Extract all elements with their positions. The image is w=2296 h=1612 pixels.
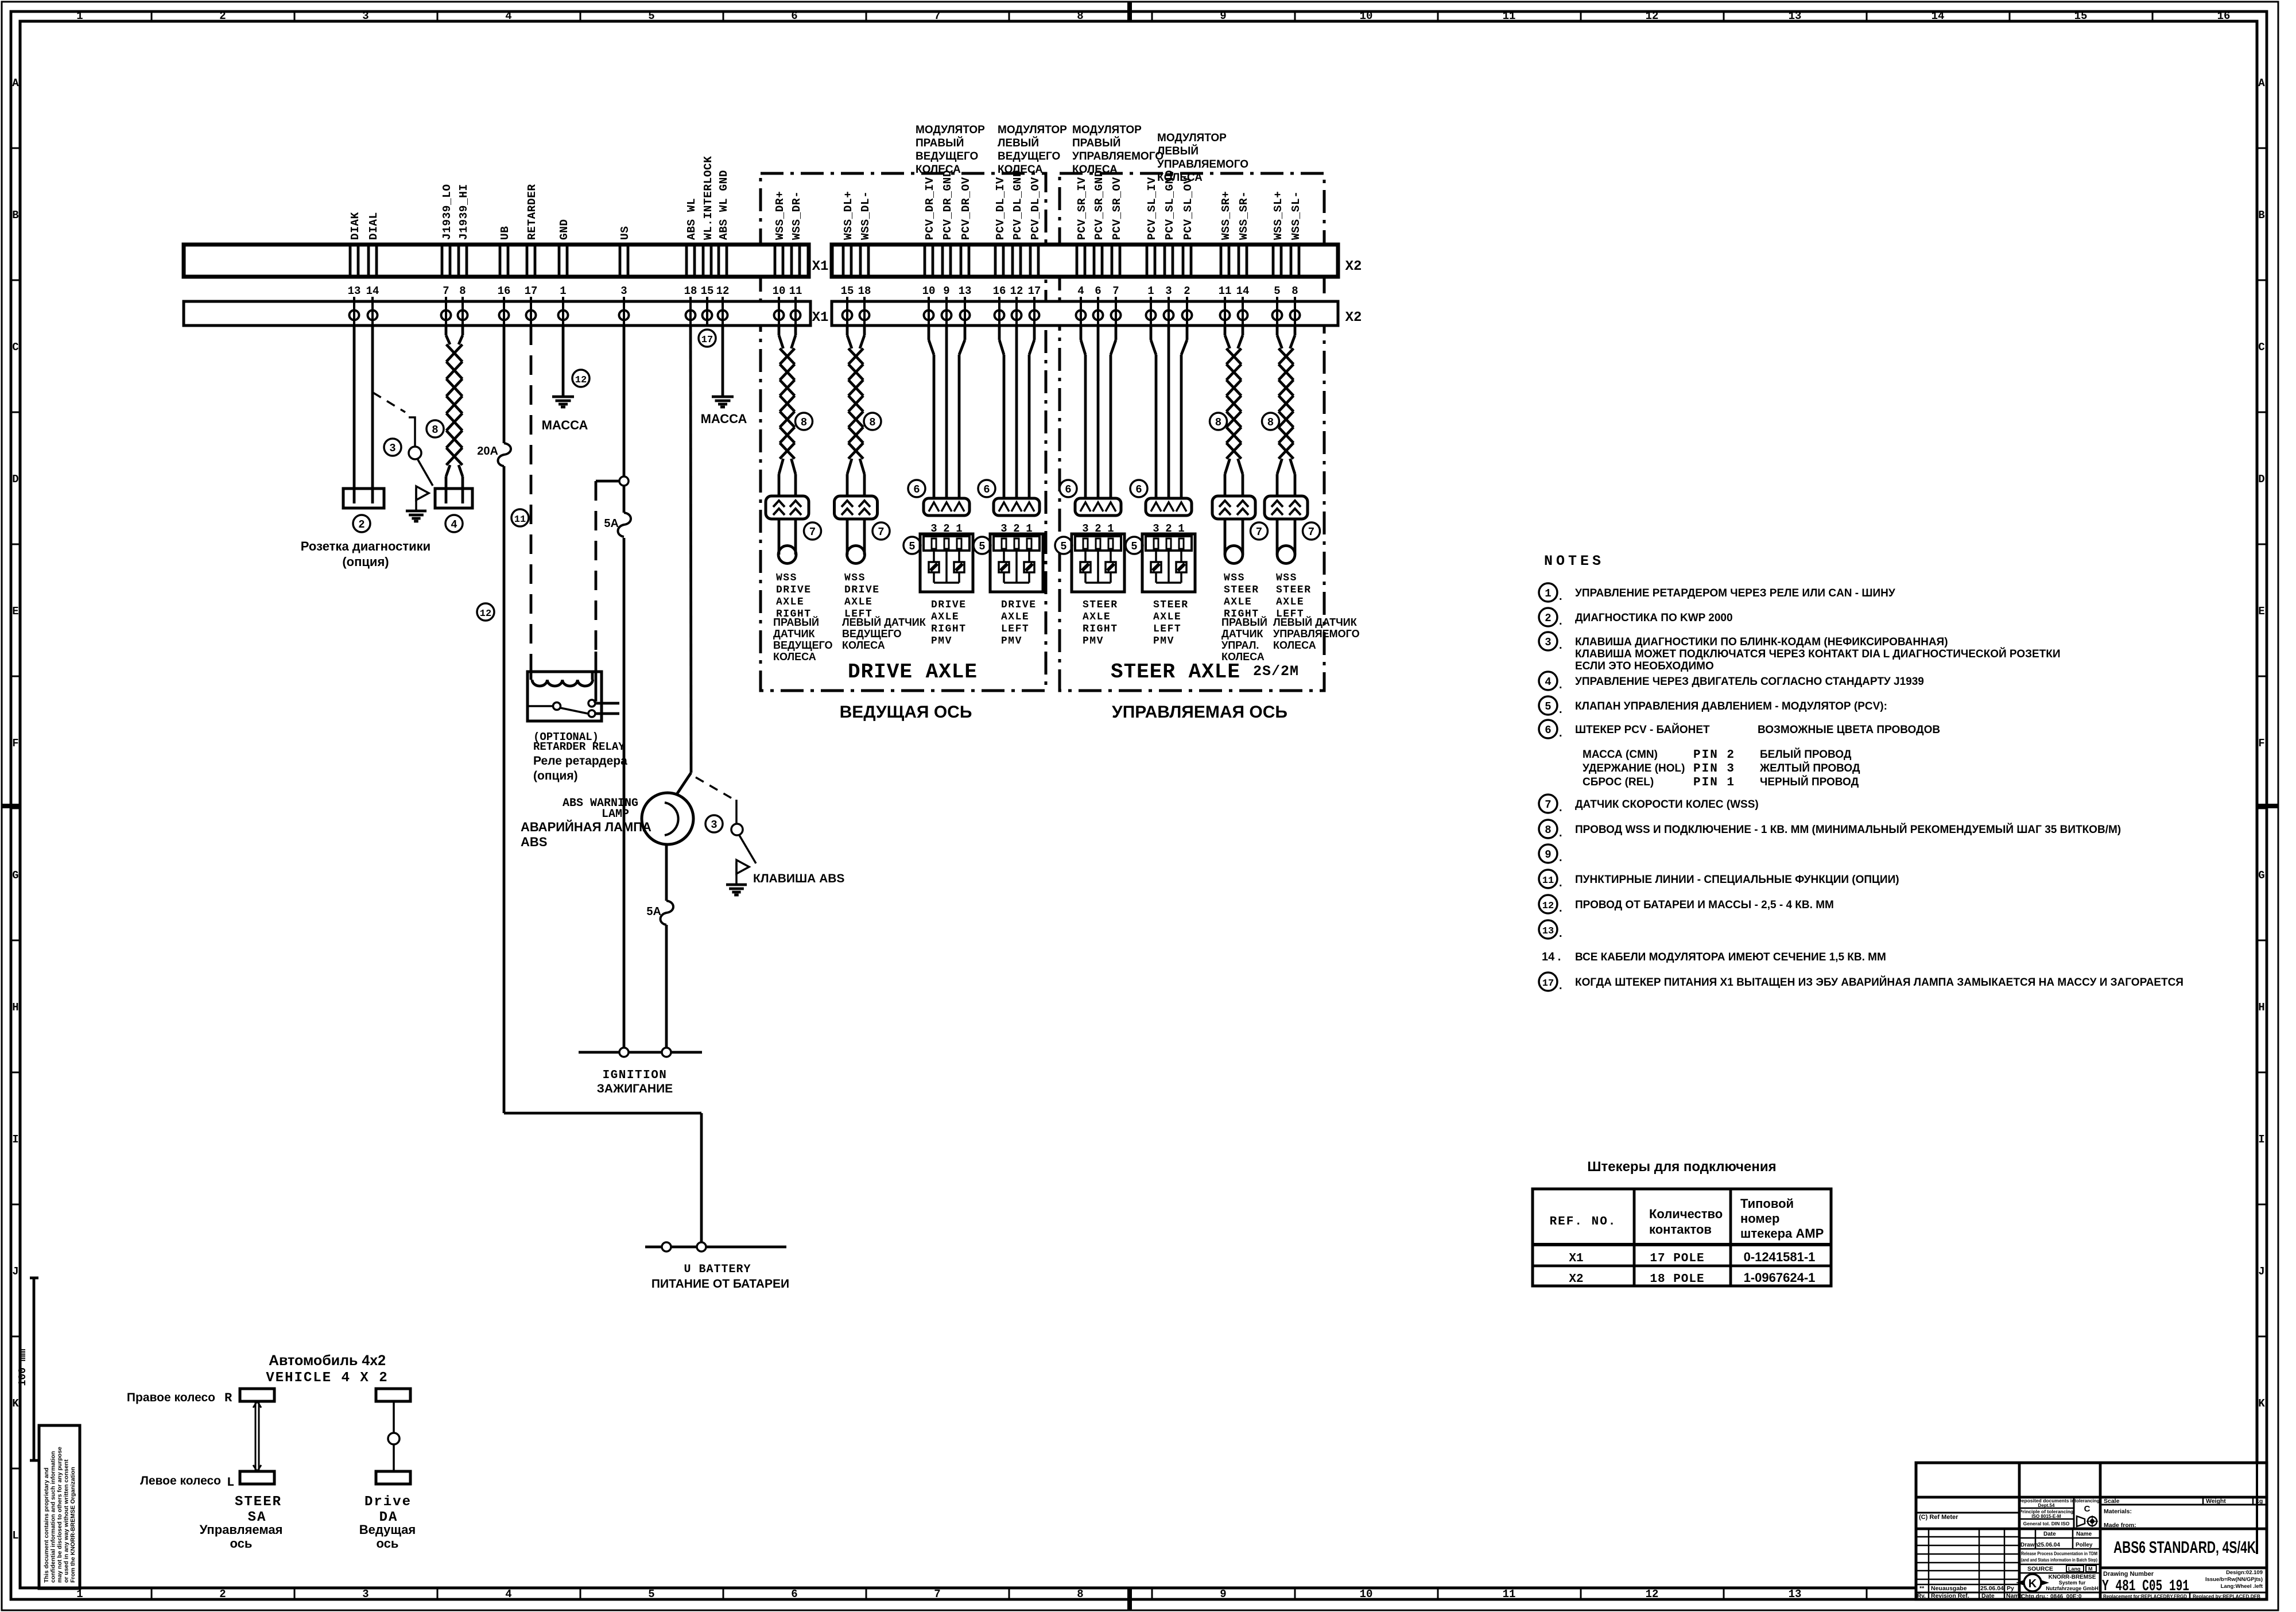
label WSS-DR english xyxy=(776,572,812,620)
note circle 6 (PMV-DR) xyxy=(908,480,925,497)
svg-text:3: 3 xyxy=(362,1588,369,1601)
ignition node (US) xyxy=(619,1048,629,1057)
switch contact circle xyxy=(409,447,421,459)
svg-text:ВЕДУЩЕГО: ВЕДУЩЕГО xyxy=(998,150,1060,162)
svg-text:L: L xyxy=(12,1529,18,1542)
sensor head WSS-SR xyxy=(1225,546,1243,564)
svg-text:PMV: PMV xyxy=(931,635,952,647)
svg-text:AXLE: AXLE xyxy=(776,596,804,608)
svg-text:25.06.04: 25.06.04 xyxy=(1980,1585,2004,1592)
svg-text:Y 481 C05 191: Y 481 C05 191 xyxy=(2102,1578,2189,1595)
svg-text:I: I xyxy=(12,1133,18,1146)
svg-text:12: 12 xyxy=(1542,901,1554,912)
svg-text:8: 8 xyxy=(1267,416,1274,429)
PMV valve box PMV-SL xyxy=(1142,534,1195,592)
svg-text:100 mm: 100 mm xyxy=(17,1348,29,1386)
ABS button wire xyxy=(735,800,738,823)
svg-text:УПРАВЛЕНИЕ РЕТАРДЕРОМ ЧЕРЕЗ РЕ: УПРАВЛЕНИЕ РЕТАРДЕРОМ ЧЕРЕЗ РЕЛЕ ИЛИ CAN… xyxy=(1575,587,1895,599)
label WSS-SL english xyxy=(1276,572,1312,620)
svg-text:Design:02.109: Design:02.109 xyxy=(2226,1570,2263,1576)
svg-text:Lang: Lang xyxy=(2068,1566,2081,1572)
note circle 7 (WSS-DL) xyxy=(872,522,890,540)
label PMV-SR xyxy=(1083,599,1118,647)
svg-text:WSS_DR-: WSS_DR- xyxy=(790,191,803,240)
svg-text:4: 4 xyxy=(505,1588,511,1601)
relay armature xyxy=(560,708,588,714)
modulator header text xyxy=(1157,132,1248,184)
svg-text:6: 6 xyxy=(1545,724,1551,737)
svg-text:or used in any way without wri: or used in any way without written conse… xyxy=(63,1459,70,1583)
svg-text:7: 7 xyxy=(878,526,884,538)
label WSS-SR russian xyxy=(1221,616,1267,662)
svg-text:LAMP: LAMP xyxy=(602,808,629,821)
svg-text:15: 15 xyxy=(2074,10,2088,22)
battery node xyxy=(662,1242,671,1251)
top ruler ticks and numbers 1-16 xyxy=(76,10,2230,22)
svg-text:.: . xyxy=(1559,615,1562,627)
svg-text:КОЛЕСА: КОЛЕСА xyxy=(916,164,961,176)
svg-text:25.06.04: 25.06.04 xyxy=(2038,1542,2060,1548)
svg-text:5A: 5A xyxy=(646,905,661,918)
note circle 8 (WSS-DR) xyxy=(796,413,813,430)
svg-text:.: . xyxy=(1559,801,1562,814)
wire ABS WL GND (pin12) to chassis ground xyxy=(722,325,724,397)
svg-text:11: 11 xyxy=(1503,1588,1516,1601)
twisted pair WSS-SL xyxy=(1279,348,1294,459)
wire UB (pin16) down xyxy=(503,325,506,443)
svg-text:Правое колесо: Правое колесо xyxy=(127,1391,215,1404)
svg-text:КОЛЕСА: КОЛЕСА xyxy=(998,164,1043,176)
svg-text:3: 3 xyxy=(711,819,717,831)
svg-text:КЛАВИША ДИАГНОСТИКИ ПО БЛИНК-К: КЛАВИША ДИАГНОСТИКИ ПО БЛИНК-КОДАМ (НЕФИ… xyxy=(1575,636,1948,648)
label WSS-SL russian xyxy=(1273,616,1360,651)
svg-text:10: 10 xyxy=(922,285,936,297)
drive axle: right wheel xyxy=(376,1389,410,1401)
svg-text:Date: Date xyxy=(1981,1592,1995,1599)
svg-text:STEER: STEER xyxy=(1083,599,1118,611)
svg-text:ось: ось xyxy=(377,1536,399,1551)
svg-text:Ведущая: Ведущая xyxy=(359,1522,416,1537)
X1 pin 15 (WL.INTERLOCK) xyxy=(701,245,714,325)
svg-text:PCV_DR_GND: PCV_DR_GND xyxy=(941,170,954,240)
svg-text:H: H xyxy=(12,1001,18,1014)
svg-text:8: 8 xyxy=(432,424,438,436)
modulator header text xyxy=(998,124,1067,176)
WSS sensor pair wires WSS-DR xyxy=(778,325,781,335)
label WSS-DL russian xyxy=(842,616,926,651)
svg-text:ПРАВЫЙ: ПРАВЫЙ xyxy=(916,137,964,149)
svg-text:PCV_DL_IV: PCV_DL_IV xyxy=(994,177,1007,240)
svg-text:X1: X1 xyxy=(812,310,829,325)
svg-text:C: C xyxy=(12,341,18,354)
svg-text:PCV_SR_IV: PCV_SR_IV xyxy=(1076,177,1088,240)
sensor head WSS-DR xyxy=(778,546,796,564)
svg-text:12: 12 xyxy=(575,375,587,386)
svg-text:16: 16 xyxy=(993,285,1006,297)
note circle 6 (PMV-DL) xyxy=(978,480,995,497)
svg-text:J1939_HI: J1939_HI xyxy=(457,184,470,240)
svg-text:ABS6 STANDARD, 4S/4K: ABS6 STANDARD, 4S/4K xyxy=(2113,1539,2256,1557)
svg-text:15: 15 xyxy=(701,285,714,297)
PCV bayonet connector PMV-DR xyxy=(924,498,969,516)
svg-text:X1: X1 xyxy=(812,259,829,274)
svg-text:STEER AXLE: STEER AXLE xyxy=(1111,660,1240,684)
X1 pin 17 (RETARDER) xyxy=(525,245,538,325)
svg-text:D: D xyxy=(12,473,18,486)
svg-text:WSS_SL+: WSS_SL+ xyxy=(1272,191,1285,240)
svg-text:ABS: ABS xyxy=(521,835,547,849)
drive axle: left wheel xyxy=(376,1471,410,1484)
svg-text:7: 7 xyxy=(1545,799,1551,811)
svg-text:ПРАВЫЙ: ПРАВЫЙ xyxy=(773,616,819,628)
svg-text:УПРАВЛЯЕМАЯ ОСЬ: УПРАВЛЯЕМАЯ ОСЬ xyxy=(1112,703,1287,722)
svg-text:.: . xyxy=(1559,979,1562,992)
svg-text:Made from:: Made from: xyxy=(2104,1522,2136,1529)
svg-text:Replaced by:REPLACED.DFB: Replaced by:REPLACED.DFB xyxy=(2193,1594,2260,1600)
twisted pair WSS-DL xyxy=(848,348,863,459)
svg-text:PIN 3: PIN 3 xyxy=(1693,762,1735,776)
svg-text:ДАТЧИК: ДАТЧИК xyxy=(1221,628,1264,640)
svg-text:11: 11 xyxy=(1542,875,1554,886)
svg-text:Реле ретардера: Реле ретардера xyxy=(533,754,627,768)
modulator header text xyxy=(916,124,985,176)
svg-text:13: 13 xyxy=(1789,10,1802,22)
svg-text:AXLE: AXLE xyxy=(1276,596,1304,608)
svg-text:13: 13 xyxy=(1789,1588,1802,1601)
svg-text:K: K xyxy=(2029,1578,2037,1590)
svg-text:17: 17 xyxy=(1028,285,1041,297)
svg-text:17 POLE: 17 POLE xyxy=(1650,1252,1704,1265)
svg-text:Py: Py xyxy=(2007,1585,2014,1592)
branch into relay terminal xyxy=(594,700,596,703)
X1 pin 3 (US) xyxy=(619,245,629,325)
svg-text:Nutzfahrzeuge GmbH: Nutzfahrzeuge GmbH xyxy=(2046,1586,2099,1591)
svg-text:4: 4 xyxy=(1077,285,1084,297)
svg-text:AXLE: AXLE xyxy=(931,611,959,623)
svg-text:8: 8 xyxy=(869,416,875,429)
wire US (pin3) down xyxy=(623,325,626,1048)
note circle 12 (battery wire) xyxy=(477,603,494,621)
svg-text:Rv.: Rv. xyxy=(1917,1593,1926,1599)
ABS warning lamp xyxy=(642,793,693,844)
svg-text:PCV_DL_OV: PCV_DL_OV xyxy=(1029,177,1042,240)
inner frame stub inside title block xyxy=(2256,1463,2258,1554)
fuse 5A (US wire) xyxy=(619,513,629,538)
svg-text:ABS WL: ABS WL xyxy=(685,198,698,240)
note circle 5 (PMV-SL) xyxy=(1126,537,1143,554)
title block main verticals xyxy=(2018,1463,2021,1599)
svg-text:16: 16 xyxy=(498,285,511,297)
note 6 colours table xyxy=(1583,724,1940,789)
X2 pin 6 (PCV_SR_GND) xyxy=(1093,245,1103,325)
label PMV-DL xyxy=(1001,599,1037,647)
note circle 17 xyxy=(699,330,716,347)
svg-text:DRIVE AXLE: DRIVE AXLE xyxy=(848,660,978,684)
svg-text:2: 2 xyxy=(1545,612,1551,625)
svg-text:Release Process Documentation: Release Process Documentation in TDM xyxy=(2021,1551,2097,1556)
svg-text:УПРАВЛЕНИЕ ЧЕРЕЗ ДВИГАТЕЛЬ СОГ: УПРАВЛЕНИЕ ЧЕРЕЗ ДВИГАТЕЛЬ СОГЛАСНО СТАН… xyxy=(1575,676,1924,688)
svg-text:STEER: STEER xyxy=(1224,584,1259,596)
svg-text:КОЛЕСА: КОЛЕСА xyxy=(1273,640,1316,651)
note circle 12 (ground wire) xyxy=(572,370,589,387)
svg-text:КОЛЕСА: КОЛЕСА xyxy=(842,640,885,651)
wire US node to retarder-relay branch xyxy=(596,480,619,483)
X1 pin 14 (DIAL) xyxy=(366,245,379,325)
svg-text:Revision Ref.: Revision Ref. xyxy=(1931,1592,1969,1599)
note circle 6 (PMV-SR) xyxy=(1060,480,1077,497)
svg-text:System fur: System fur xyxy=(2059,1580,2086,1586)
WSS connector WSS-DR xyxy=(766,496,809,519)
svg-text:RIGHT: RIGHT xyxy=(1083,623,1118,635)
ABS button lever xyxy=(739,835,756,863)
svg-text:3: 3 xyxy=(1545,636,1551,649)
svg-text:12: 12 xyxy=(716,285,730,297)
X1 pin 18 (ABS WL) xyxy=(684,245,697,325)
svg-text:STEER: STEER xyxy=(235,1494,282,1510)
svg-text:(опция): (опция) xyxy=(342,555,389,569)
svg-text:D: D xyxy=(2258,473,2264,486)
svg-text:5: 5 xyxy=(979,540,985,553)
svg-text:Автомобиль 4x2: Автомобиль 4x2 xyxy=(269,1353,386,1369)
retarder relay box xyxy=(528,672,602,721)
note circle 5 (PMV-DR) xyxy=(903,537,921,554)
svg-text:6: 6 xyxy=(983,483,990,496)
X1 pin 8 (J1939_HI) xyxy=(458,245,468,325)
svg-text:AXLE: AXLE xyxy=(844,596,872,608)
svg-text:2: 2 xyxy=(219,1588,226,1601)
svg-text:5: 5 xyxy=(1060,540,1066,553)
X1 pin 1 (GND) xyxy=(559,245,568,325)
relay common contact xyxy=(529,705,553,707)
svg-text:номер: номер xyxy=(1740,1211,1779,1226)
svg-text:B: B xyxy=(2258,209,2264,222)
differential circle xyxy=(388,1433,400,1444)
X2 pin 3 (PCV_SL_GND) xyxy=(1164,245,1174,325)
svg-text:7: 7 xyxy=(934,10,940,22)
X2 pin 18 (WSS_DL-) xyxy=(858,245,871,325)
X1 pin 12 (ABS WL GND) xyxy=(716,245,730,325)
svg-text:ЖЕЛТЫЙ ПРОВОД: ЖЕЛТЫЙ ПРОВОД xyxy=(1759,762,1860,774)
ABS button flag + ground xyxy=(726,860,749,895)
svg-text:DIAL: DIAL xyxy=(367,212,380,240)
svg-text:WSS_DL+: WSS_DL+ xyxy=(842,191,855,240)
svg-text:STEER: STEER xyxy=(1276,584,1312,596)
WSS sensor pair wires WSS-SR xyxy=(1224,325,1227,335)
twisted pair WSS-DR xyxy=(780,348,795,459)
svg-text:12: 12 xyxy=(1646,1588,1659,1601)
svg-text:КОЛЕСА: КОЛЕСА xyxy=(1072,164,1118,176)
X1 pin 7 (J1939_LO) xyxy=(441,245,451,325)
note circle 8 (WSS-SR) xyxy=(1210,413,1227,430)
svg-text:From the KNORR-BREMSE Organiza: From the KNORR-BREMSE Organization xyxy=(69,1467,76,1583)
svg-text:11: 11 xyxy=(1219,285,1232,297)
note circle 3 (ABS button) xyxy=(705,815,723,832)
svg-text:PCV_DR_IV: PCV_DR_IV xyxy=(924,177,936,240)
label WSS-DL english xyxy=(844,572,880,620)
PCV wires PMV-DL xyxy=(998,325,1001,340)
proprietary notice box xyxy=(39,1425,80,1588)
svg-text:ВЕДУЩАЯ ОСЬ: ВЕДУЩАЯ ОСЬ xyxy=(840,703,972,722)
svg-text:2: 2 xyxy=(358,518,364,531)
svg-text:9: 9 xyxy=(1220,10,1226,22)
note 17 xyxy=(1539,972,2183,992)
svg-text:3: 3 xyxy=(620,285,627,297)
svg-text:K: K xyxy=(12,1397,19,1410)
svg-text:6: 6 xyxy=(1065,483,1071,496)
ignition node (lamp) xyxy=(662,1048,671,1057)
svg-text:tolerancing: tolerancing xyxy=(2074,1498,2099,1503)
svg-text:АВАРИЙНАЯ ЛАМПА: АВАРИЙНАЯ ЛАМПА xyxy=(521,820,651,834)
svg-text:КОЛЕСА: КОЛЕСА xyxy=(773,651,816,662)
svg-text:13: 13 xyxy=(348,285,361,297)
svg-text:PCV_SL_IV: PCV_SL_IV xyxy=(1146,177,1158,240)
svg-text:5: 5 xyxy=(909,540,915,553)
svg-text:R: R xyxy=(224,1391,232,1405)
wire ABS WL (pin18) to warning lamp xyxy=(691,325,691,773)
note circle 8 (WSS-SL) xyxy=(1262,413,1279,430)
svg-text:Drawn: Drawn xyxy=(2020,1542,2038,1548)
PCV bayonet connector PMV-SL xyxy=(1146,498,1192,516)
svg-text:18: 18 xyxy=(684,285,697,297)
svg-text:PCV_SL_OV: PCV_SL_OV xyxy=(1182,177,1194,240)
svg-text:PIN 2: PIN 2 xyxy=(1693,749,1735,762)
svg-text:STEER: STEER xyxy=(1153,599,1189,611)
svg-text:PMV: PMV xyxy=(1153,635,1174,647)
svg-text:kg: kg xyxy=(2256,1498,2263,1505)
svg-text:E: E xyxy=(12,605,18,618)
svg-text:17: 17 xyxy=(1542,978,1554,989)
svg-text:ВЕДУЩЕГО: ВЕДУЩЕГО xyxy=(842,628,902,640)
svg-text:UB: UB xyxy=(499,226,511,240)
PCV wires PMV-DR xyxy=(928,325,930,340)
sensor wires WSS-DL xyxy=(846,519,849,555)
J1939 connector socket xyxy=(435,489,472,508)
svg-text:A: A xyxy=(2258,77,2265,90)
svg-text:U BATTERY: U BATTERY xyxy=(684,1263,751,1276)
X2 pin 5 (WSS_SL+) xyxy=(1273,245,1282,325)
svg-text:ЕСЛИ ЭТО НЕОБХОДИМО: ЕСЛИ ЭТО НЕОБХОДИМО xyxy=(1575,660,1714,672)
svg-text:3: 3 xyxy=(362,10,369,22)
svg-text:ЛЕВЫЙ: ЛЕВЫЙ xyxy=(998,137,1039,149)
diagnostic blink-code switch (note 3) dashed link xyxy=(373,393,405,412)
svg-text:10: 10 xyxy=(1360,10,1373,22)
svg-text:6: 6 xyxy=(1095,285,1101,297)
svg-text:11: 11 xyxy=(1503,10,1516,22)
svg-text:ПУНКТИРНЫЕ ЛИНИИ - СПЕЦИАЛЬНЫЕ: ПУНКТИРНЫЕ ЛИНИИ - СПЕЦИАЛЬНЫЕ ФУНКЦИИ (… xyxy=(1575,874,1899,886)
svg-text:G: G xyxy=(12,869,18,882)
steer axle: left wheel xyxy=(240,1471,274,1484)
svg-text:9: 9 xyxy=(1545,848,1551,861)
svg-text:10: 10 xyxy=(1360,1588,1373,1601)
X1 pin 13 (DIAK) xyxy=(348,245,361,325)
svg-text:B: B xyxy=(12,209,18,222)
note circle 4 xyxy=(445,515,463,532)
note 7 xyxy=(1539,795,1759,814)
svg-text:ДАТЧИК: ДАТЧИК xyxy=(773,628,816,640)
svg-text:1-0967624-1: 1-0967624-1 xyxy=(1744,1270,1816,1285)
svg-text:8: 8 xyxy=(1291,285,1298,297)
ECU connector X2 bottom (pin) bar xyxy=(832,301,1338,325)
dashed branch to relay contact xyxy=(595,481,598,652)
svg-text:AXLE: AXLE xyxy=(1224,596,1252,608)
svg-text:RETARDER: RETARDER xyxy=(526,184,538,240)
note circle 7 (WSS-SR) xyxy=(1251,522,1268,540)
svg-text:17: 17 xyxy=(525,285,538,297)
svg-text:ISO 8015-E-M: ISO 8015-E-M xyxy=(2031,1514,2061,1519)
svg-text:6: 6 xyxy=(791,10,797,22)
drive axle shaft xyxy=(393,1401,395,1433)
svg-text:8: 8 xyxy=(1077,10,1083,22)
svg-text:11: 11 xyxy=(789,285,802,297)
svg-text:Управляемая: Управляемая xyxy=(200,1522,283,1537)
svg-text:ПРОВОД WSS И ПОДКЛЮЧЕНИЕ - 1 К: ПРОВОД WSS И ПОДКЛЮЧЕНИЕ - 1 КВ. ММ (МИН… xyxy=(1575,823,2121,836)
X1 pin 11 (WSS_DR-) xyxy=(789,245,802,325)
svg-text:F: F xyxy=(2258,737,2264,750)
ABS button contact circle xyxy=(731,824,743,835)
svg-text:14: 14 xyxy=(1932,10,1945,22)
svg-text:ПРАВЫЙ: ПРАВЫЙ xyxy=(1072,137,1120,149)
svg-text:DIAK: DIAK xyxy=(349,212,362,240)
svg-text:8: 8 xyxy=(1077,1588,1083,1601)
svg-text:КОЛЕСА: КОЛЕСА xyxy=(1157,172,1203,184)
note 2 xyxy=(1539,608,1733,627)
PCV wires PMV-SL xyxy=(1150,325,1153,340)
X2 pin 16 (PCV_DL_IV) xyxy=(993,245,1006,325)
svg-text:КОГДА ШТЕКЕР ПИТАНИЯ X1 ВЫТАЩЕ: КОГДА ШТЕКЕР ПИТАНИЯ X1 ВЫТАЩЕН ИЗ ЭБУ А… xyxy=(1575,976,2183,989)
PCV bayonet connector PMV-DL xyxy=(994,498,1040,516)
svg-text:.: . xyxy=(1559,639,1562,652)
twisted pair J1939 (pins 7/8) xyxy=(445,325,448,335)
svg-text:WSS: WSS xyxy=(1276,572,1297,584)
svg-text:ВЕДУЩЕГО: ВЕДУЩЕГО xyxy=(916,150,978,162)
svg-text:Dept.54: Dept.54 xyxy=(2038,1503,2055,1508)
label WSS-DR russian xyxy=(773,616,833,662)
svg-text:5: 5 xyxy=(648,10,654,22)
sensor wires WSS-DR xyxy=(778,519,781,555)
svg-text:.: . xyxy=(1559,927,1562,940)
svg-text:11: 11 xyxy=(514,514,526,525)
X2 pin 7 (PCV_SR_OV) xyxy=(1111,245,1121,325)
svg-text:ПИТАНИЕ ОТ БАТАРЕИ: ПИТАНИЕ ОТ БАТАРЕИ xyxy=(651,1277,789,1291)
svg-text:8: 8 xyxy=(1545,824,1551,836)
svg-text:WSS: WSS xyxy=(1224,572,1245,584)
note 6 xyxy=(1539,720,1710,739)
svg-text:КЛАПАН УПРАВЛЕНИЯ ДАВЛЕНИЕМ -: КЛАПАН УПРАВЛЕНИЯ ДАВЛЕНИЕМ - МОДУЛЯТОР … xyxy=(1575,700,1887,712)
note circle 7 (WSS-DR) xyxy=(804,522,821,540)
svg-text:I: I xyxy=(2258,1133,2264,1146)
ground symbol (ABS WL GND) xyxy=(712,397,734,407)
relay terminals xyxy=(588,700,595,707)
svg-text:Issue/b=Rw(NN/GPjts): Issue/b=Rw(NN/GPjts) xyxy=(2205,1576,2263,1583)
svg-text:9: 9 xyxy=(1220,1588,1226,1601)
PCV bayonet connector PMV-SR xyxy=(1075,498,1121,516)
svg-text:L: L xyxy=(227,1475,234,1490)
PMV valve box PMV-DL xyxy=(990,534,1043,592)
svg-text:УПРАВЛЯЕМОГО: УПРАВЛЯЕМОГО xyxy=(1072,150,1163,162)
connector table xyxy=(1533,1189,1831,1286)
twisted pair WSS-SR xyxy=(1227,348,1242,459)
svg-text:МАССА: МАССА xyxy=(701,412,747,426)
note 11 xyxy=(1539,870,1899,889)
svg-text:0-1241581-1: 0-1241581-1 xyxy=(1744,1250,1816,1264)
svg-text:RETARDER RELAY: RETARDER RELAY xyxy=(533,741,625,753)
svg-text:WSS: WSS xyxy=(776,572,797,584)
svg-text:Левое колесо: Левое колесо xyxy=(140,1474,221,1487)
svg-text:4: 4 xyxy=(1545,676,1551,688)
wire UB to battery corner xyxy=(503,466,506,1113)
svg-text:PCV_DR_OV: PCV_DR_OV xyxy=(960,177,972,240)
note 4 xyxy=(1539,672,1924,691)
